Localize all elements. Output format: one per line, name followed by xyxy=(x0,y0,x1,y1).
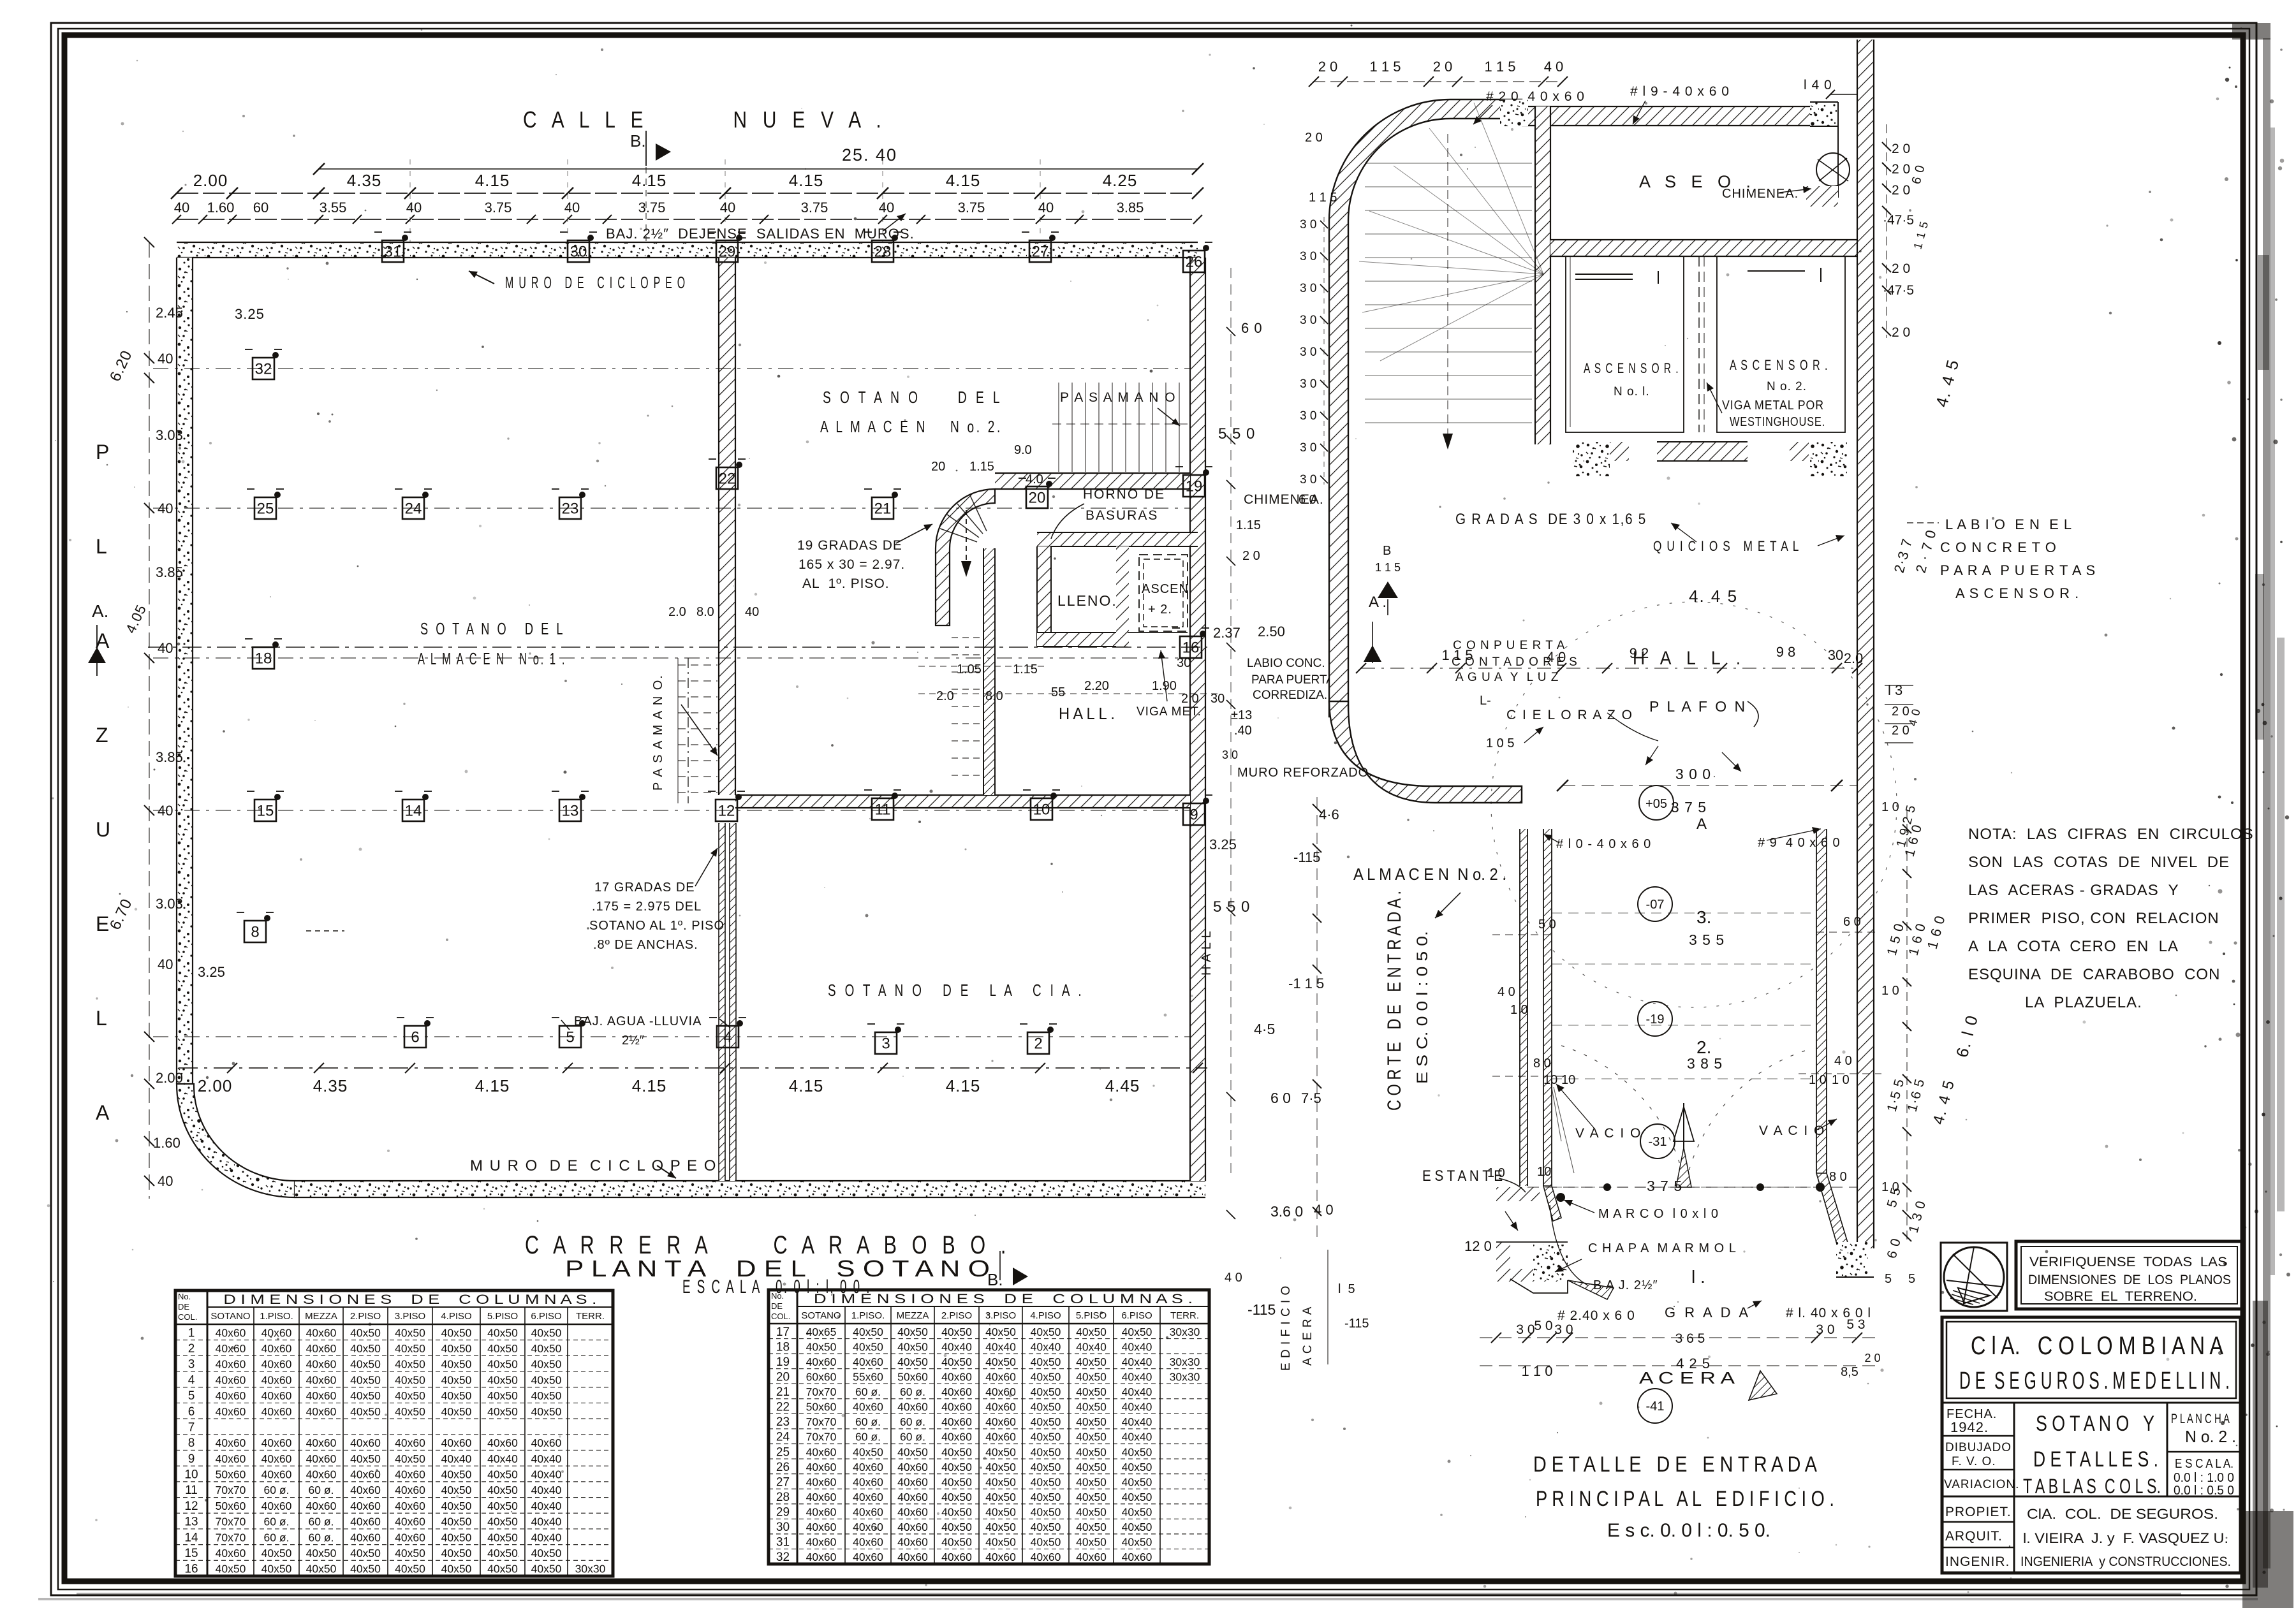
svg-text:N o. l.: N o. l. xyxy=(1614,385,1650,398)
svg-text:40x50: 40x50 xyxy=(441,1531,472,1544)
svg-text:50x60: 50x60 xyxy=(806,1401,837,1414)
svg-text:40x40: 40x40 xyxy=(531,1531,562,1544)
column 11 xyxy=(864,790,901,820)
svg-text:40x50: 40x50 xyxy=(1031,1356,1061,1368)
svg-text:40x60: 40x60 xyxy=(306,1452,337,1465)
column 27 xyxy=(1022,232,1059,262)
svg-text:40x50: 40x50 xyxy=(395,1547,425,1560)
svg-text:14: 14 xyxy=(405,802,422,819)
svg-text:40: 40 xyxy=(720,200,735,216)
svg-text:40x40: 40x40 xyxy=(531,1452,562,1465)
svg-text:10: 10 xyxy=(1543,1073,1557,1087)
svg-text:3: 3 xyxy=(881,1035,890,1052)
svg-text:40x60: 40x60 xyxy=(897,1491,928,1503)
svg-text:3 0: 3 0 xyxy=(1300,250,1316,263)
column 16 xyxy=(1172,628,1209,658)
svg-text:SOTANO AL 1º. PISO: SOTANO AL 1º. PISO xyxy=(589,919,725,933)
svg-text:P L A N C H A: P L A N C H A xyxy=(2171,1412,2230,1426)
chimney flue circle xyxy=(1722,153,1850,207)
column 21 xyxy=(864,489,901,519)
note 19 gradas xyxy=(797,524,932,591)
svg-text:3 0 0: 3 0 0 xyxy=(1675,766,1711,782)
svg-text:4.15: 4.15 xyxy=(789,171,824,190)
label plafon xyxy=(1645,698,1758,771)
svg-text:40x65: 40x65 xyxy=(806,1326,837,1338)
svg-text:40x50: 40x50 xyxy=(941,1475,972,1488)
svg-text:1.90: 1.90 xyxy=(1152,679,1177,693)
svg-text:40x60: 40x60 xyxy=(306,1500,337,1512)
svg-text:40x50: 40x50 xyxy=(1031,1415,1061,1428)
svg-text:40x60: 40x60 xyxy=(395,1516,425,1528)
svg-text:C O N T A D O R E S: C O N T A D O R E S xyxy=(1452,655,1578,669)
svg-text:L: L xyxy=(96,535,107,558)
svg-text:40x40: 40x40 xyxy=(985,1340,1016,1353)
svg-text:3 0: 3 0 xyxy=(1300,282,1316,295)
svg-text:l 3: l 3 xyxy=(1888,682,1902,698)
svg-text:3 0: 3 0 xyxy=(1222,749,1238,761)
svg-text:40x50: 40x50 xyxy=(441,1563,472,1575)
stair inner wall xyxy=(983,548,995,795)
svg-text:C l A. C O L O M B I A N A: C l A. C O L O M B I A N A xyxy=(1971,1332,2223,1360)
svg-text:3.55: 3.55 xyxy=(320,200,347,216)
svg-text:3 0: 3 0 xyxy=(1816,1322,1834,1337)
entrance top dimension row xyxy=(1309,59,1857,124)
svg-text:40x60: 40x60 xyxy=(395,1468,425,1481)
svg-text:40x50: 40x50 xyxy=(1076,1506,1107,1519)
svg-text:40x60: 40x60 xyxy=(216,1373,246,1386)
svg-text:3 5 5: 3 5 5 xyxy=(1689,932,1725,948)
svg-text:4.15: 4.15 xyxy=(632,1076,667,1095)
svg-text:32: 32 xyxy=(776,1551,790,1564)
svg-text:2.00: 2.00 xyxy=(193,171,228,190)
svg-text:3.03: 3.03 xyxy=(156,896,183,912)
svg-text:40x50: 40x50 xyxy=(1076,1401,1107,1414)
stair treads lower flight xyxy=(952,638,982,775)
label baj 2.5 entrance xyxy=(1550,1205,1658,1292)
svg-text:8,5: 8,5 xyxy=(1841,1365,1858,1379)
svg-text:2.PISO: 2.PISO xyxy=(941,1310,972,1321)
svg-text:40x50: 40x50 xyxy=(1076,1521,1107,1533)
labels right of plan: chimenea / 5.50 / 60 xyxy=(1200,320,1373,1285)
svg-text:40x60: 40x60 xyxy=(806,1356,837,1368)
svg-text:1 0: 1 0 xyxy=(1881,800,1899,814)
svg-text:40: 40 xyxy=(158,1173,173,1189)
dim row hall xyxy=(1356,644,1863,673)
svg-text:40x50: 40x50 xyxy=(531,1342,562,1355)
label sotano del almacen no 1 xyxy=(418,619,566,668)
svg-text:40x50: 40x50 xyxy=(985,1506,1016,1519)
svg-text:50x60: 50x60 xyxy=(216,1500,246,1512)
right dimension chain lower xyxy=(1881,800,1982,1286)
svg-text:0.0 l : 1.0 0: 0.0 l : 1.0 0 xyxy=(2174,1471,2234,1485)
svg-text:F. V. O.: F. V. O. xyxy=(1952,1455,1996,1468)
svg-text:40x40: 40x40 xyxy=(531,1468,562,1481)
label cielorazo xyxy=(1486,708,1658,750)
entrance porch bottom left xyxy=(1464,1238,1614,1299)
label 2-40x60 grada 1-40x60 xyxy=(1557,1183,1871,1323)
svg-text:40x50: 40x50 xyxy=(350,1358,381,1371)
svg-text:1.15: 1.15 xyxy=(1236,518,1261,532)
elevator ascensor no1 xyxy=(1566,256,1684,432)
svg-text:40x50: 40x50 xyxy=(1122,1445,1152,1458)
wall central xyxy=(719,258,736,1181)
svg-text:40x60: 40x60 xyxy=(306,1373,337,1386)
middle chain labels between plans xyxy=(1247,1021,1303,1318)
label marco 10x10 xyxy=(1556,1193,1719,1221)
svg-text:2.00: 2.00 xyxy=(156,1070,183,1086)
svg-text:40x60: 40x60 xyxy=(216,1342,246,1355)
svg-text:D I M E N S I O N E S D E: D I M E N S I O N E S D E C O L U M N A … xyxy=(814,1292,1193,1306)
svg-text:-115: -115 xyxy=(1293,849,1320,865)
svg-text:# 9 4 0 x 6 0: # 9 4 0 x 6 0 xyxy=(1758,836,1841,850)
column 30 xyxy=(560,232,597,262)
svg-text:V A C I O: V A C I O xyxy=(1759,1123,1825,1138)
label horno de basuras xyxy=(1051,487,1165,539)
svg-text:1.60: 1.60 xyxy=(153,1135,180,1151)
elevator shaft block lleno/ascen xyxy=(1037,532,1198,647)
small dims near stair xyxy=(668,443,1225,706)
svg-text:40x60: 40x60 xyxy=(350,1436,381,1449)
title planta del sotano xyxy=(565,1251,1028,1289)
svg-text:40x50: 40x50 xyxy=(1031,1326,1061,1338)
svg-text:40x60: 40x60 xyxy=(806,1461,837,1473)
svg-text:70x70: 70x70 xyxy=(806,1431,837,1444)
svg-text:40x60: 40x60 xyxy=(985,1401,1016,1414)
svg-text:70x70: 70x70 xyxy=(216,1484,246,1496)
svg-text:6 0: 6 0 xyxy=(1270,1090,1291,1106)
svg-text:A S C E N S O R .: A S C E N S O R . xyxy=(1955,585,2079,601)
svg-text:26: 26 xyxy=(1186,253,1203,270)
svg-text:3 0: 3 0 xyxy=(1300,409,1316,423)
svg-text:60: 60 xyxy=(253,200,269,216)
svg-text:40x60: 40x60 xyxy=(487,1436,518,1449)
svg-text:70x70: 70x70 xyxy=(216,1516,246,1528)
right dimension chain labio concreto xyxy=(1885,516,2096,743)
svg-text:40x60: 40x60 xyxy=(853,1536,883,1549)
svg-text:3.75: 3.75 xyxy=(958,200,985,216)
dim ladder 30s left of curved wall xyxy=(1299,131,1337,507)
svg-text:1.15: 1.15 xyxy=(969,460,994,474)
quicios metal sill xyxy=(1573,442,1847,554)
svg-text:5 0: 5 0 xyxy=(1534,1319,1552,1333)
svg-text:3.25: 3.25 xyxy=(198,964,225,980)
svg-text:ASCEN.: ASCEN. xyxy=(1142,582,1193,596)
label ascen xyxy=(1142,582,1193,617)
svg-text:50x60: 50x60 xyxy=(216,1468,246,1481)
wall muro de ciclopeo left xyxy=(177,258,295,1197)
svg-text:40: 40 xyxy=(879,200,894,216)
svg-text:20: 20 xyxy=(776,1370,790,1384)
svg-text:40x50: 40x50 xyxy=(1031,1491,1061,1503)
elevators top wall xyxy=(1550,240,1860,256)
svg-text:2.PISO: 2.PISO xyxy=(350,1311,381,1322)
svg-text:4.15: 4.15 xyxy=(632,171,667,190)
svg-text:40x50: 40x50 xyxy=(1031,1431,1061,1444)
svg-text:40x60: 40x60 xyxy=(216,1405,246,1418)
svg-text:40x50: 40x50 xyxy=(853,1445,883,1458)
svg-text:2: 2 xyxy=(1034,1035,1042,1052)
svg-text:40x60: 40x60 xyxy=(897,1461,928,1473)
svg-text:6 0: 6 0 xyxy=(1299,493,1316,507)
svg-text:3.85: 3.85 xyxy=(156,749,183,765)
svg-text:40x50: 40x50 xyxy=(1076,1431,1107,1444)
svg-text:23: 23 xyxy=(776,1415,790,1429)
svg-text:40x50: 40x50 xyxy=(1076,1536,1107,1549)
stair quarter turn xyxy=(936,489,995,625)
svg-text:1.15: 1.15 xyxy=(1013,662,1038,676)
svg-text:40x50: 40x50 xyxy=(441,1500,472,1512)
svg-text:MEZZA: MEZZA xyxy=(897,1310,929,1321)
svg-text:12 0: 12 0 xyxy=(1464,1238,1492,1254)
svg-text:40x60: 40x60 xyxy=(897,1506,928,1519)
section marker A entrance xyxy=(1364,594,1387,663)
svg-text:40x50: 40x50 xyxy=(1031,1475,1061,1488)
svg-text:8.0: 8.0 xyxy=(985,689,1003,703)
svg-text:40x50: 40x50 xyxy=(1076,1461,1107,1473)
svg-text:10: 10 xyxy=(184,1468,198,1482)
svg-text:D E S E G U R O S . M E D E L: D E S E G U R O S . M E D E L L I N . xyxy=(1959,1368,2230,1394)
svg-text:DIMENSIONES DE LOS PLANOS: DIMENSIONES DE LOS PLANOS xyxy=(2028,1273,2231,1287)
svg-text:40x60: 40x60 xyxy=(853,1356,883,1368)
svg-text:40x60: 40x60 xyxy=(897,1475,928,1488)
svg-text:30x30: 30x30 xyxy=(1170,1326,1200,1338)
svg-text:8: 8 xyxy=(251,923,259,940)
svg-text:40: 40 xyxy=(158,351,173,367)
svg-text:22: 22 xyxy=(776,1401,790,1414)
svg-text:2 0: 2 0 xyxy=(1892,724,1910,738)
svg-text:40x50: 40x50 xyxy=(441,1373,472,1386)
svg-text:1 0: 1 0 xyxy=(1832,1073,1850,1087)
svg-text:WESTINGHOUSE.: WESTINGHOUSE. xyxy=(1730,415,1825,429)
svg-text:40x50: 40x50 xyxy=(441,1547,472,1560)
svg-text:BAJ. 2½″ DEJENSE SALIDAS EN: BAJ. 2½″ DEJENSE SALIDAS EN MUROS. xyxy=(606,226,915,242)
table dimensiones de columnas 17-32 xyxy=(769,1290,1209,1564)
svg-text:7: 7 xyxy=(188,1421,195,1434)
svg-text:40x50: 40x50 xyxy=(441,1484,472,1496)
svg-text:-41: -41 xyxy=(1646,1400,1665,1414)
svg-text:P A R A P U E R T A S: P A R A P U E R T A S xyxy=(1940,562,2096,578)
compass logo xyxy=(1941,1243,2007,1311)
label estante xyxy=(1422,1167,1526,1231)
svg-text:40x50: 40x50 xyxy=(1031,1461,1061,1473)
svg-text:B A J. 2½″: B A J. 2½″ xyxy=(1593,1278,1658,1292)
svg-text:40x50: 40x50 xyxy=(941,1445,972,1458)
svg-text:40x40: 40x40 xyxy=(487,1452,518,1465)
labels 10-40x60 and 9-40x60 xyxy=(1543,827,1841,851)
svg-text:29: 29 xyxy=(719,243,736,260)
grid axis lines xyxy=(153,369,1190,1037)
column 9 xyxy=(1175,795,1212,825)
svg-text:4.PISO: 4.PISO xyxy=(1030,1310,1061,1321)
svg-text:40x50: 40x50 xyxy=(395,1452,425,1465)
svg-text:3.75: 3.75 xyxy=(485,200,512,216)
svg-text:40x50: 40x50 xyxy=(395,1389,425,1402)
bottom dimension chain xyxy=(179,1063,1207,1095)
column 29 xyxy=(709,232,746,262)
svg-text:40x50: 40x50 xyxy=(261,1563,292,1575)
svg-text:40x60: 40x60 xyxy=(897,1536,928,1549)
svg-text:2 0: 2 0 xyxy=(1892,261,1910,276)
svg-text:CORREDIZA.: CORREDIZA. xyxy=(1253,689,1327,702)
svg-text:l. VIEIRA J. y F. VASQUEZ U.: l. VIEIRA J. y F. VASQUEZ U. xyxy=(2023,1530,2228,1546)
svg-text:ESQUINA DE CARABOBO CON: ESQUINA DE CARABOBO CON xyxy=(1968,966,2220,983)
svg-text:40x50: 40x50 xyxy=(1076,1415,1107,1428)
svg-text:A L M A C E N N o. 2 .: A L M A C E N N o. 2 . xyxy=(1353,865,1506,884)
svg-text:40x60: 40x60 xyxy=(985,1370,1016,1383)
svg-text:3.: 3. xyxy=(1696,907,1711,927)
svg-text:M U R O D E C I C L O P E O: M U R O D E C I C L O P E O xyxy=(470,1157,717,1174)
svg-text:40: 40 xyxy=(406,200,422,216)
svg-text:·47·5: ·47·5 xyxy=(1883,283,1914,298)
svg-text:70x70: 70x70 xyxy=(806,1415,837,1428)
svg-text:LA PLAZUELA.: LA PLAZUELA. xyxy=(2025,994,2142,1011)
svg-text:40x60: 40x60 xyxy=(350,1500,381,1512)
svg-text:5 3: 5 3 xyxy=(1846,1317,1865,1332)
svg-text:MURO REFORZADO.: MURO REFORZADO. xyxy=(1237,766,1373,780)
entrance elevators left wall xyxy=(1535,106,1550,444)
svg-text:40x50: 40x50 xyxy=(985,1521,1016,1533)
svg-text:40x60: 40x60 xyxy=(941,1385,972,1398)
svg-text:4 0: 4 0 xyxy=(1498,985,1515,999)
svg-text:2 0: 2 0 xyxy=(1892,162,1910,177)
svg-text:3 0: 3 0 xyxy=(1300,218,1316,231)
svg-text:9: 9 xyxy=(1189,806,1198,823)
svg-text:40x60: 40x60 xyxy=(897,1521,928,1533)
column 19 xyxy=(1175,467,1212,497)
svg-text:1 0: 1 0 xyxy=(1881,984,1899,998)
svg-text:25. 40: 25. 40 xyxy=(842,145,897,164)
svg-text:LAS ACERAS - GRADAS Y: LAS ACERAS - GRADAS Y xyxy=(1968,882,2179,899)
level circle -31 xyxy=(1640,1124,1675,1158)
svg-text:A G U A Y L U Z: A G U A Y L U Z xyxy=(1455,671,1559,684)
svg-text:4: 4 xyxy=(188,1373,195,1387)
svg-text:40x60: 40x60 xyxy=(941,1431,972,1444)
svg-text:40x60: 40x60 xyxy=(853,1401,883,1414)
svg-text:U: U xyxy=(96,818,110,841)
svg-text:40x60: 40x60 xyxy=(261,1389,292,1402)
svg-text:40x60: 40x60 xyxy=(853,1491,883,1503)
svg-text:+ 2.: + 2. xyxy=(1148,603,1172,617)
section marker B entrance xyxy=(1375,544,1401,615)
svg-text:SOTANO: SOTANO xyxy=(801,1310,841,1321)
svg-text:E S C A L A.: E S C A L A. xyxy=(2175,1457,2233,1471)
svg-text:28: 28 xyxy=(776,1491,790,1504)
svg-text:40x50: 40x50 xyxy=(531,1405,562,1418)
svg-text:40x50: 40x50 xyxy=(487,1373,518,1386)
svg-text:3 7 5: 3 7 5 xyxy=(1671,799,1707,815)
svg-text:2: 2 xyxy=(188,1342,195,1356)
svg-text:23: 23 xyxy=(562,500,579,517)
column 8 xyxy=(237,912,274,942)
svg-text:40x60: 40x60 xyxy=(853,1506,883,1519)
svg-text:40x60: 40x60 xyxy=(985,1415,1016,1428)
note baj agua lluvia xyxy=(561,1014,730,1048)
svg-text:11: 11 xyxy=(875,801,891,818)
svg-text:40x60: 40x60 xyxy=(897,1401,928,1414)
svg-text:INGENIERIA y CONSTRUCCIONES.: INGENIERIA y CONSTRUCCIONES. xyxy=(2020,1554,2231,1569)
svg-text:28: 28 xyxy=(874,243,892,260)
svg-text:4·6: 4·6 xyxy=(1319,807,1339,822)
wall muro de ciclopeo bottom xyxy=(295,1181,1205,1197)
svg-text:6 0: 6 0 xyxy=(1843,915,1861,929)
svg-text:3 0: 3 0 xyxy=(1554,1322,1573,1337)
svg-text:40x40: 40x40 xyxy=(531,1500,562,1512)
svg-text:SON LAS COTAS DE NIVEL DE: SON LAS COTAS DE NIVEL DE xyxy=(1968,854,2230,871)
svg-text:40x60: 40x60 xyxy=(806,1445,837,1458)
column 3 xyxy=(867,1024,904,1054)
level circle -19 xyxy=(1638,1002,1672,1036)
svg-text:40x50: 40x50 xyxy=(1031,1445,1061,1458)
label pasamano upper xyxy=(1060,390,1180,426)
svg-text:30x30: 30x30 xyxy=(1170,1356,1200,1368)
wall interior hall xyxy=(735,795,1190,808)
svg-text:40x50: 40x50 xyxy=(441,1389,472,1402)
svg-text:A S C E N S O R .: A S C E N S O R . xyxy=(1730,357,1829,373)
label edificio acera vertical xyxy=(1279,1250,1369,1371)
svg-text:16: 16 xyxy=(1182,639,1200,656)
svg-text:CHIMENEA.: CHIMENEA. xyxy=(1722,187,1799,201)
svg-text:40x50: 40x50 xyxy=(306,1563,337,1575)
small dims entrance sides xyxy=(1487,915,1881,1184)
svg-text:DIBUJADO: DIBUJADO xyxy=(1945,1441,2012,1454)
label acera xyxy=(1639,1368,1777,1400)
svg-text:TERR.: TERR. xyxy=(1170,1310,1199,1321)
svg-text:40x60: 40x60 xyxy=(216,1358,246,1371)
svg-text:40x60: 40x60 xyxy=(395,1500,425,1512)
svg-text:40x50: 40x50 xyxy=(941,1326,972,1338)
svg-text:40x50: 40x50 xyxy=(487,1389,518,1402)
svg-text:18: 18 xyxy=(776,1340,790,1354)
svg-text:12: 12 xyxy=(718,802,735,819)
svg-text:P A S A M A N O.: P A S A M A N O. xyxy=(651,674,665,791)
svg-text:.40: .40 xyxy=(1234,724,1252,738)
svg-text:25: 25 xyxy=(257,500,274,517)
table dimensiones de columnas 1-16 xyxy=(175,1290,613,1576)
svg-text:5: 5 xyxy=(1908,1272,1915,1286)
svg-text:40x50: 40x50 xyxy=(487,1547,518,1560)
section marker B top xyxy=(630,131,671,241)
svg-text:10: 10 xyxy=(1561,1073,1575,1087)
title block main xyxy=(1942,1317,2241,1573)
svg-text:40x60: 40x60 xyxy=(261,1342,292,1355)
svg-text:27: 27 xyxy=(776,1475,790,1489)
svg-text:E s c. 0. 0 l : 0. 5 0.: E s c. 0. 0 l : 0. 5 0. xyxy=(1607,1520,1770,1541)
svg-text:40x50: 40x50 xyxy=(1031,1506,1061,1519)
svg-text:5: 5 xyxy=(188,1389,195,1403)
svg-text:60 ø.: 60 ø. xyxy=(309,1484,334,1496)
left dimension chain xyxy=(107,237,265,1199)
svg-text:40x60: 40x60 xyxy=(853,1475,883,1488)
svg-text:40x50: 40x50 xyxy=(531,1326,562,1339)
plafond dashed circle xyxy=(1491,602,1897,1007)
svg-text:40x50: 40x50 xyxy=(1076,1356,1107,1368)
svg-text:40x50: 40x50 xyxy=(441,1468,472,1481)
svg-text:N o. 2 .: N o. 2 . xyxy=(2185,1427,2236,1446)
svg-text:6.PISO: 6.PISO xyxy=(1121,1310,1152,1321)
svg-text:50x60: 50x60 xyxy=(897,1370,928,1383)
svg-text:19 GRADAS DE: 19 GRADAS DE xyxy=(797,538,902,553)
svg-text:40x50: 40x50 xyxy=(395,1373,425,1386)
svg-text:40x50: 40x50 xyxy=(1076,1326,1107,1338)
svg-text:1.05: 1.05 xyxy=(957,662,982,676)
svg-text:BAJ. AGUA -LLUVIA: BAJ. AGUA -LLUVIA xyxy=(574,1014,702,1028)
svg-text:16: 16 xyxy=(184,1563,198,1576)
svg-text:D E T A L L E D E E N T R: D E T A L L E D E E N T R A D A xyxy=(1533,1452,1817,1477)
column 24 xyxy=(395,489,432,519)
svg-text:# 2.40 x 6 0: # 2.40 x 6 0 xyxy=(1557,1308,1635,1323)
svg-text:40x60: 40x60 xyxy=(261,1500,292,1512)
svg-text:D I M E N S I O N E S D E: D I M E N S I O N E S D E C O L U M N A … xyxy=(223,1292,596,1307)
